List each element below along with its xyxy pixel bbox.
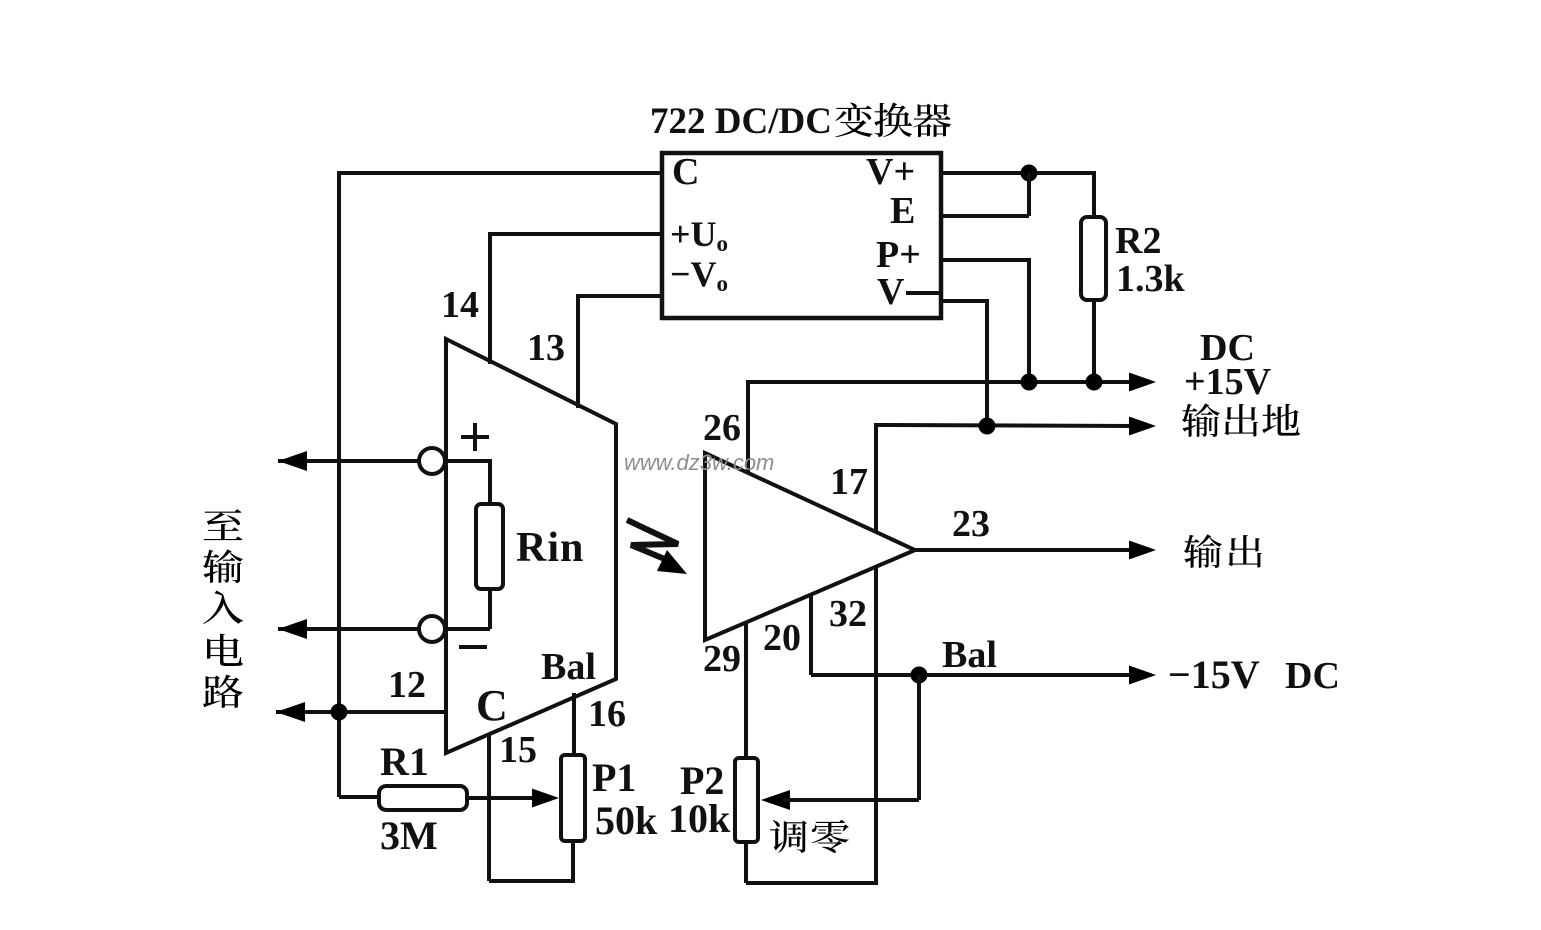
wire: output ground rail — [874, 425, 1132, 426]
svg-text:P+: P+ — [876, 234, 921, 276]
svg-text:R1: R1 — [380, 739, 429, 784]
svg-text:R2: R2 — [1115, 220, 1161, 262]
wire: rail to R1 — [339, 795, 379, 799]
wire: Rin bottom to - terminal — [488, 587, 492, 629]
inverting - mark — [459, 645, 487, 649]
wire: pin26 to +15V rail — [746, 382, 750, 472]
wire: output from apex — [912, 548, 1132, 552]
wire: pin29 to P2 top — [744, 622, 748, 760]
junction: rail meets pin12 wire — [331, 704, 348, 721]
svg-text:E: E — [890, 190, 915, 232]
svg-text:V: V — [877, 271, 905, 313]
arrowhead right (+15V) — [1129, 373, 1156, 392]
wire: R1 to P1 wiper — [467, 796, 538, 800]
wire: V- pin — [939, 299, 987, 303]
terminal circle + input — [419, 448, 445, 474]
svg-text:Rin: Rin — [516, 525, 584, 571]
potentiometer P2 body — [735, 758, 758, 842]
svg-text:23: 23 — [952, 503, 990, 545]
wire: P+ drop to +15V rail — [1027, 258, 1031, 382]
arrowhead right (ground) — [1129, 417, 1156, 436]
svg-text:+15V: +15V — [1184, 361, 1272, 403]
noninverting + mark — [461, 435, 489, 439]
wire: E pin — [939, 214, 1029, 218]
arrowhead left (- input) — [278, 619, 307, 639]
isolation amplifier input section A1 (trapezoid) — [446, 339, 616, 753]
wire: pin16 to P1 top — [572, 693, 576, 755]
svg-text:1.3k: 1.3k — [1116, 258, 1186, 300]
svg-text:50k: 50k — [595, 798, 658, 843]
wire: bottom link pin15 to P1 — [489, 879, 575, 883]
wire: -Vo pin to pin13 — [578, 294, 664, 298]
wire: Bal rail to -15V — [811, 673, 1132, 677]
svg-text:V+: V+ — [866, 151, 915, 193]
junction: P+ on +15V rail — [1021, 374, 1038, 391]
label 调零 — [770, 820, 807, 853]
svg-text:32: 32 — [829, 593, 867, 635]
svg-text:P1: P1 — [592, 755, 636, 800]
wire: bottom link P2 to pin32 — [746, 881, 878, 885]
svg-text:29: 29 — [703, 638, 741, 680]
svg-text:Bal: Bal — [541, 646, 596, 688]
wire: +15V rail — [746, 380, 1132, 384]
converter module U1: 722 DC/DC box — [662, 153, 941, 318]
wire: P2 bottom — [744, 842, 748, 883]
junction: V- on ground rail — [979, 418, 996, 435]
potentiometer P1 body — [561, 755, 585, 841]
svg-text:13: 13 — [527, 327, 565, 369]
wire: + terminal to Rin top — [445, 459, 490, 463]
svg-text:16: 16 — [588, 693, 626, 735]
wire: R2 bottom to +15V rail — [1092, 298, 1096, 382]
wire: left vertical rail (C net) — [337, 171, 341, 797]
wire: + terminal to left arrow — [278, 459, 419, 463]
svg-text:722 DC/DC: 722 DC/DC — [650, 101, 832, 142]
svg-text:15: 15 — [499, 729, 537, 771]
arrowhead right (P1 wiper) — [532, 789, 559, 808]
wire: pin17 to ground rail — [874, 425, 878, 531]
wire: V- drop to ground rail — [985, 299, 989, 426]
svg-text:20: 20 — [763, 617, 801, 659]
svg-text:17: 17 — [830, 461, 868, 503]
wire: converter C pin to left rail — [339, 171, 664, 175]
label: title 变换器 — [835, 103, 872, 138]
resistor R2 body — [1081, 217, 1106, 300]
arrowhead left (pin12 / C net) — [276, 702, 305, 722]
svg-text:26: 26 — [703, 407, 741, 449]
svg-text:C: C — [672, 151, 699, 193]
wire: P1 bottom — [571, 841, 575, 881]
svg-text:Bal: Bal — [942, 634, 997, 676]
wire: R2 top drop — [1092, 171, 1096, 219]
wire: V+ pin to R2 — [939, 171, 1094, 175]
wire: V+/E link — [1027, 173, 1031, 216]
junction: Bal / P2 wiper — [911, 667, 928, 684]
arrowhead right (-15V) — [1129, 666, 1156, 685]
svg-text:10k: 10k — [668, 796, 731, 841]
wire: pin14 vertical drop — [488, 232, 492, 364]
wire: P2 wiper to Bal junction — [783, 798, 919, 802]
resistor R1 body — [379, 786, 467, 810]
arrowhead right (output) — [1129, 541, 1156, 560]
wire: pin15 drop — [487, 735, 491, 881]
wire: +Uo pin to pin14 — [490, 232, 664, 236]
arrowhead left (+ input) — [278, 451, 307, 471]
svg-text:+Uo: +Uo — [670, 214, 728, 256]
wire: P+ pin — [939, 258, 1029, 262]
arrowhead left (P2 wiper) — [761, 790, 790, 810]
junction: V+ / E — [1021, 165, 1038, 182]
wire: - terminal to left arrow — [278, 627, 419, 631]
svg-text:−15V: −15V — [1168, 652, 1260, 697]
svg-text:−Vo: −Vo — [670, 254, 728, 296]
wire: pin13 vertical drop — [576, 294, 580, 408]
wire: pin32 drop — [874, 567, 878, 883]
label: 至输入电路 vertical — [204, 509, 243, 540]
svg-text:C: C — [476, 681, 508, 730]
wire: pin12 to left arrow — [276, 710, 448, 714]
op-amp output section A2 (triangle) — [705, 453, 915, 640]
terminal circle - input — [419, 616, 445, 642]
wire: pin20 drop — [809, 594, 813, 675]
label 输出 — [1184, 534, 1222, 568]
opto isolation arrow — [627, 520, 678, 560]
junction: R2 on +15V rail — [1086, 374, 1103, 391]
svg-text:12: 12 — [388, 664, 426, 706]
svg-text:14: 14 — [441, 284, 479, 326]
svg-text:DC: DC — [1285, 655, 1340, 697]
label 输出地 — [1182, 403, 1220, 437]
resistor Rin body — [476, 504, 503, 589]
svg-text:3M: 3M — [380, 813, 438, 858]
svg-text:www.dz3w.com: www.dz3w.com — [624, 450, 774, 475]
